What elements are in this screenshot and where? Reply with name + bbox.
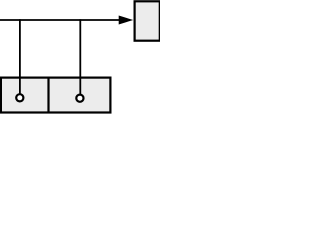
wire (vertical from node 1)	[19, 19, 21, 94]
wire (horizontal arrow shaft)	[0, 19, 121, 21]
box B2 (bottom two-cell box)	[1, 78, 111, 113]
node circle 2	[76, 95, 83, 102]
divider of box B2	[47, 78, 49, 113]
background	[0, 0, 160, 120]
wire (vertical from node 2)	[79, 19, 81, 95]
node circle 1	[16, 94, 23, 101]
box B1 (top-right target box)	[135, 1, 160, 40]
arrowhead into box B1	[119, 16, 134, 25]
